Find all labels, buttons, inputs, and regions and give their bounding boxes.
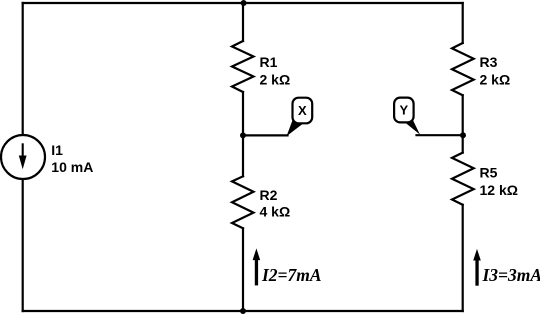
svg-text:2 kΩ: 2 kΩ [480, 72, 511, 88]
svg-text:R3: R3 [480, 54, 498, 70]
svg-text:Y: Y [399, 102, 408, 117]
svg-text:R5: R5 [480, 165, 498, 181]
svg-text:I1: I1 [51, 142, 63, 158]
svg-text:R1: R1 [260, 54, 278, 70]
svg-text:I3=3mA: I3=3mA [482, 265, 540, 285]
svg-text:I2=7mA: I2=7mA [261, 265, 322, 285]
svg-text:10 mA: 10 mA [51, 159, 93, 175]
svg-text:4 kΩ: 4 kΩ [260, 204, 291, 220]
svg-text:R2: R2 [260, 187, 278, 203]
svg-text:2 kΩ: 2 kΩ [260, 71, 291, 87]
svg-text:X: X [298, 103, 307, 118]
svg-text:12 kΩ: 12 kΩ [480, 182, 518, 198]
